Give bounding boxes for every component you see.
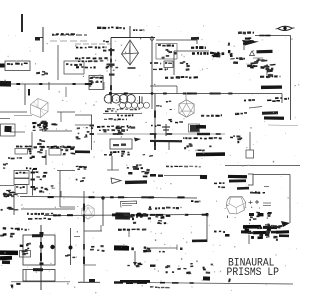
wire xyxy=(253,174,290,176)
loop xyxy=(150,37,154,41)
junction xyxy=(205,213,208,216)
dashes xyxy=(192,239,207,242)
connector blob xyxy=(0,81,11,87)
marks xyxy=(3,167,5,168)
arrow xyxy=(111,178,121,184)
faint row xyxy=(166,166,169,168)
vert wire xyxy=(83,197,85,282)
IC box U10 xyxy=(23,235,55,265)
hook xyxy=(248,174,253,185)
marks right of box xyxy=(148,208,151,210)
IC U12 label xyxy=(7,63,10,65)
marks xyxy=(214,231,217,233)
capacitor C2 xyxy=(165,124,167,136)
polyhedron cube P2 xyxy=(31,99,49,118)
junction xyxy=(151,92,154,95)
marks xyxy=(140,264,143,266)
dark bar xyxy=(125,180,147,184)
net label xyxy=(260,76,264,78)
junction xyxy=(109,49,115,51)
IC U13 xyxy=(64,61,84,74)
connector blob xyxy=(0,64,5,68)
IC U3 label xyxy=(90,77,93,79)
net label xyxy=(110,151,113,153)
IC U12 xyxy=(5,61,30,71)
vert wire right xyxy=(289,175,291,224)
wire xyxy=(110,38,112,105)
wire xyxy=(60,206,75,208)
marks xyxy=(236,135,240,137)
heavy dark bar xyxy=(114,245,129,250)
marks xyxy=(43,175,46,177)
wire xyxy=(168,141,170,151)
wire blobs main bus xyxy=(210,93,214,95)
polyhedron icosahedron P4 xyxy=(82,205,94,219)
vert wire xyxy=(102,198,104,226)
marks xyxy=(84,136,88,138)
dark box xyxy=(115,212,130,219)
wire xyxy=(91,115,93,150)
inductor L1 xyxy=(104,95,113,104)
net label xyxy=(214,183,217,185)
marks top-left xyxy=(15,228,20,230)
dark marks xyxy=(200,175,207,179)
wire xyxy=(249,132,251,150)
dark wire xyxy=(75,150,90,153)
junctions xyxy=(31,172,36,174)
bottom-edge marks r1 xyxy=(233,61,238,64)
net label xyxy=(150,62,152,64)
heavy dark dash xyxy=(196,152,225,156)
marks xyxy=(191,200,193,202)
junction xyxy=(101,196,104,199)
marks xyxy=(35,187,38,188)
bottom long line xyxy=(114,282,293,284)
marks xyxy=(189,143,192,145)
wire xyxy=(103,113,142,115)
marks xyxy=(166,101,168,103)
net label xyxy=(191,47,194,49)
marks xyxy=(168,119,172,120)
IC U7 xyxy=(14,171,29,179)
wire xyxy=(151,94,153,110)
dark marks under cube xyxy=(40,121,43,124)
tick xyxy=(84,264,96,266)
marks xyxy=(51,123,55,125)
apostrophe mark xyxy=(228,278,231,282)
junction ticks xyxy=(90,125,95,127)
marks xyxy=(273,237,275,238)
bottom smudge row xyxy=(16,146,19,148)
net label xyxy=(158,44,161,46)
resistor R1 xyxy=(256,50,272,54)
net label xyxy=(97,27,101,29)
dark bar xyxy=(196,125,206,129)
net label xyxy=(275,97,279,99)
wire blobs v84 xyxy=(83,257,85,265)
small box xyxy=(20,251,31,258)
marks xyxy=(71,146,75,148)
component marks xyxy=(228,50,231,53)
marks xyxy=(90,249,94,251)
svg-text:PRISMS LP: PRISMS LP xyxy=(227,267,280,279)
net label xyxy=(236,58,239,60)
wire xyxy=(164,175,207,177)
dark dashes xyxy=(150,174,156,177)
net label xyxy=(76,66,79,68)
wire xyxy=(174,50,209,52)
tick xyxy=(250,201,252,205)
marks xyxy=(67,254,71,256)
marks xyxy=(11,284,14,286)
marks xyxy=(180,62,184,64)
marks xyxy=(127,127,129,129)
net label xyxy=(250,192,253,194)
wire xyxy=(0,185,14,187)
polyhedron dodecahedron P5 xyxy=(226,197,246,214)
component marks xyxy=(247,41,253,43)
dark blob in box xyxy=(4,126,11,132)
wire stub xyxy=(185,94,187,101)
marks xyxy=(113,70,115,71)
wire xyxy=(152,39,197,41)
component marks xyxy=(253,65,256,66)
marks xyxy=(80,166,82,168)
hook bracket xyxy=(121,201,137,208)
IC U2 xyxy=(164,61,173,68)
net label xyxy=(26,167,28,169)
stub xyxy=(60,191,62,197)
net label xyxy=(78,60,80,62)
dark dashes xyxy=(112,214,122,217)
junction dot xyxy=(40,245,44,249)
wire xyxy=(31,132,33,150)
dark segment xyxy=(197,133,210,135)
IC U5 xyxy=(190,125,199,132)
marks xyxy=(254,61,257,62)
dash xyxy=(150,265,156,267)
dark cluster xyxy=(262,111,278,115)
net label xyxy=(104,154,107,156)
wire xyxy=(249,107,262,109)
wire xyxy=(21,208,75,210)
junction xyxy=(191,37,199,40)
net label xyxy=(253,192,257,194)
dark dash xyxy=(237,187,249,190)
scatter cluster xyxy=(177,268,181,270)
left edge heavy blobs xyxy=(0,250,18,255)
marks xyxy=(1,209,3,211)
tick xyxy=(128,230,130,237)
IC U4 xyxy=(110,139,132,149)
net label xyxy=(105,110,109,112)
wire xyxy=(107,169,119,171)
marks xyxy=(174,52,176,55)
marks xyxy=(70,153,73,154)
box xyxy=(1,124,16,136)
wire xyxy=(42,130,72,132)
wire xyxy=(0,111,27,113)
wire blobs v111 xyxy=(110,48,112,55)
bottom line left xyxy=(11,281,70,283)
dash left xyxy=(225,234,230,237)
dash right xyxy=(74,236,80,238)
wire xyxy=(97,133,225,135)
marks in box xyxy=(25,249,28,252)
wire xyxy=(60,112,62,122)
tick xyxy=(84,230,102,232)
wire xyxy=(255,35,291,37)
wire xyxy=(75,124,91,126)
marks xyxy=(87,131,90,133)
net label xyxy=(183,137,185,139)
arrow down xyxy=(134,251,136,263)
wire xyxy=(10,131,25,133)
component marks xyxy=(41,140,45,142)
marks bottom edge xyxy=(267,223,269,225)
transistor Q1 xyxy=(250,51,255,56)
wire xyxy=(111,37,155,39)
wire blobs y282 xyxy=(190,282,194,284)
wire xyxy=(253,57,263,59)
net label xyxy=(133,29,135,31)
marks xyxy=(11,195,14,197)
indicator lamp DS1 xyxy=(276,26,295,30)
vert bus xyxy=(154,94,156,151)
boxes row xyxy=(15,149,28,155)
vert wire xyxy=(25,270,27,282)
faint wire xyxy=(268,124,298,127)
net label xyxy=(267,100,271,102)
IC U3 xyxy=(89,76,103,90)
marks xyxy=(259,233,263,236)
marks xyxy=(36,72,40,74)
dots row xyxy=(8,157,10,158)
polyhedron icosahedron P3 xyxy=(179,100,194,118)
marks xyxy=(127,154,130,156)
text rows xyxy=(27,213,29,215)
net label xyxy=(155,207,157,209)
wire xyxy=(192,39,197,41)
marks xyxy=(250,216,253,218)
net label xyxy=(103,40,105,41)
IC box U11 xyxy=(23,270,55,282)
dash xyxy=(122,203,137,205)
stub xyxy=(24,84,26,105)
wire xyxy=(103,82,105,90)
dark stroke xyxy=(28,89,30,96)
stub xyxy=(48,82,50,90)
wire blobs y84 xyxy=(85,83,92,85)
blob xyxy=(89,279,95,282)
net label xyxy=(218,186,220,188)
marks xyxy=(180,248,183,251)
dark wire xyxy=(228,175,247,179)
net label xyxy=(117,114,119,116)
marks xyxy=(264,65,268,67)
IC outline xyxy=(156,44,177,60)
D/A cluster xyxy=(139,164,142,166)
arrow blob xyxy=(281,221,290,227)
marks xyxy=(81,166,84,168)
junction xyxy=(40,232,44,235)
faint marks xyxy=(150,155,153,157)
inductor L2 xyxy=(120,102,126,108)
wire xyxy=(281,94,283,104)
blob on line xyxy=(203,276,210,280)
marks xyxy=(17,229,20,231)
component marks xyxy=(39,129,43,130)
bar xyxy=(78,281,100,283)
IC U6 xyxy=(246,150,254,158)
IC U9 xyxy=(15,185,27,194)
arrow blob xyxy=(134,138,141,142)
wire xyxy=(243,44,245,50)
marks xyxy=(76,179,78,181)
junction xyxy=(109,92,112,95)
wire xyxy=(57,170,75,172)
wire xyxy=(45,150,47,165)
wire xyxy=(21,14,23,32)
tiny marks xyxy=(46,189,48,191)
marks xyxy=(115,216,119,219)
wire xyxy=(52,34,87,36)
wire xyxy=(150,85,177,87)
bus wire xyxy=(44,215,207,216)
net label xyxy=(75,57,78,59)
wire xyxy=(0,118,10,120)
net label xyxy=(175,122,178,124)
wire blobs top right xyxy=(265,35,270,37)
net label xyxy=(165,77,168,79)
marks xyxy=(141,167,143,169)
vert xyxy=(100,225,102,231)
wire xyxy=(173,51,175,75)
net label xyxy=(235,113,239,115)
wire xyxy=(57,111,75,113)
wire xyxy=(111,156,113,170)
wire xyxy=(57,45,59,80)
wire xyxy=(50,40,88,42)
wire xyxy=(290,36,292,121)
speckle xyxy=(71,148,75,150)
wire blobs v41 xyxy=(40,242,42,248)
wire xyxy=(225,165,300,167)
wire xyxy=(42,27,44,52)
net label xyxy=(151,125,153,126)
bus wire xyxy=(20,197,197,199)
thick bottom dark xyxy=(120,280,150,283)
marks xyxy=(90,77,93,78)
polyhedron prism P1 xyxy=(122,40,139,65)
dark bar xyxy=(261,85,282,89)
IC U13 label xyxy=(66,63,68,65)
wire xyxy=(129,26,131,38)
tick below xyxy=(227,216,229,219)
net label xyxy=(103,50,106,52)
blob xyxy=(50,245,54,249)
net label xyxy=(76,47,78,49)
dark blob xyxy=(258,213,264,216)
IC pins xyxy=(97,126,100,128)
dark wire xyxy=(150,140,182,142)
net label xyxy=(52,34,54,36)
wire blobs y215 xyxy=(202,214,207,216)
box label xyxy=(33,268,43,271)
bottom-edge marks r2 xyxy=(271,64,276,66)
junction blob xyxy=(249,213,254,216)
vert wire xyxy=(70,228,72,265)
tick xyxy=(248,235,250,244)
vert wire xyxy=(151,37,153,94)
vert bus xyxy=(40,225,42,290)
marks xyxy=(160,216,164,219)
net label xyxy=(238,31,242,34)
wire xyxy=(7,83,89,85)
wire xyxy=(266,64,268,75)
bottom smudges xyxy=(150,286,153,287)
marks xyxy=(159,251,161,253)
net label xyxy=(244,100,246,102)
heavy cluster xyxy=(243,225,261,229)
dark dashes on line xyxy=(114,281,123,283)
wire xyxy=(14,115,32,117)
box label xyxy=(32,234,43,237)
heavy marks xyxy=(276,230,289,233)
marks xyxy=(118,229,122,231)
marks xyxy=(7,193,12,196)
wire xyxy=(75,43,111,45)
wire xyxy=(156,39,192,41)
transistor wedge xyxy=(242,40,259,46)
blob xyxy=(69,246,73,250)
junction xyxy=(36,37,43,39)
wire blobs mid bus xyxy=(48,196,54,198)
ticks on right wire xyxy=(264,186,269,188)
IC U8 xyxy=(14,179,29,185)
wire xyxy=(65,87,67,97)
label under prism xyxy=(128,67,136,69)
wire xyxy=(110,93,282,95)
net label xyxy=(153,69,157,70)
vert xyxy=(13,194,15,215)
marks xyxy=(144,246,147,249)
net label xyxy=(192,52,195,54)
wire xyxy=(150,247,177,249)
coil shade xyxy=(107,108,111,110)
marks xyxy=(216,55,220,58)
wire blobs y134 xyxy=(216,133,221,135)
stub xyxy=(83,191,85,197)
vert wire xyxy=(59,171,61,208)
vert wire xyxy=(206,215,208,243)
marks xyxy=(256,212,260,214)
vert wire xyxy=(32,169,34,196)
wire xyxy=(176,86,178,94)
net label xyxy=(104,119,107,120)
capacitor C1 xyxy=(139,96,141,104)
tick xyxy=(256,200,258,204)
wire xyxy=(75,114,92,116)
wire blobs v155 xyxy=(154,142,156,147)
net label xyxy=(201,115,204,117)
dark wire xyxy=(229,179,246,182)
marks xyxy=(40,149,43,151)
